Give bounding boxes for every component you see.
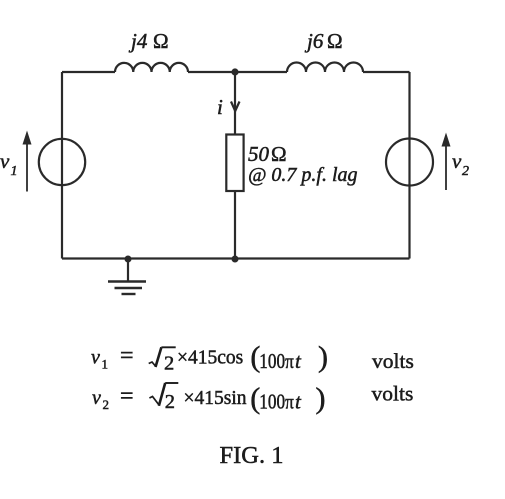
svg-text:volts: volts: [372, 382, 414, 406]
svg-text:100π: 100π: [259, 349, 294, 373]
svg-text:2: 2: [462, 164, 469, 179]
svg-text:FIG. 1: FIG. 1: [220, 442, 284, 469]
svg-text:Ω: Ω: [153, 29, 169, 53]
svg-text:): ): [318, 341, 328, 374]
svg-text:2: 2: [103, 397, 110, 412]
svg-text:×415cos: ×415cos: [177, 348, 243, 369]
svg-text:v: v: [92, 387, 101, 409]
svg-text:t: t: [295, 349, 302, 373]
svg-text:Ω: Ω: [271, 142, 287, 166]
svg-text:=: =: [120, 384, 134, 410]
svg-text:t: t: [295, 389, 302, 413]
svg-text:volts: volts: [372, 349, 414, 373]
svg-text:×415sin: ×415sin: [184, 388, 247, 409]
svg-text:50: 50: [248, 142, 270, 166]
svg-text:100π: 100π: [259, 389, 294, 413]
svg-text:j6: j6: [304, 29, 324, 53]
svg-text:i: i: [217, 95, 223, 119]
svg-text:Ω: Ω: [327, 29, 343, 53]
svg-text:): ): [316, 382, 326, 415]
svg-text:v: v: [452, 149, 462, 173]
svg-text:j4: j4: [128, 29, 148, 53]
svg-text:1: 1: [11, 164, 18, 179]
svg-text:=: =: [120, 343, 134, 369]
svg-text:@ 0.7 p.f. lag: @ 0.7 p.f. lag: [248, 164, 358, 186]
svg-text:2: 2: [164, 352, 174, 374]
svg-text:1: 1: [102, 357, 109, 372]
svg-text:v: v: [91, 347, 100, 369]
svg-text:v: v: [0, 149, 10, 173]
svg-text:2: 2: [165, 391, 175, 413]
